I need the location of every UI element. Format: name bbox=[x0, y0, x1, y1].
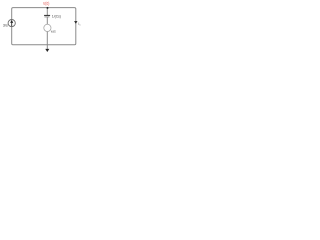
svg-text:I₁: I₁ bbox=[78, 22, 81, 26]
svg-text:V(0): V(0) bbox=[43, 1, 50, 6]
svg-text:v₀/s: v₀/s bbox=[51, 29, 56, 34]
svg-text:3/s: 3/s bbox=[3, 22, 8, 27]
svg-text:1/(Cs): 1/(Cs) bbox=[52, 15, 62, 19]
